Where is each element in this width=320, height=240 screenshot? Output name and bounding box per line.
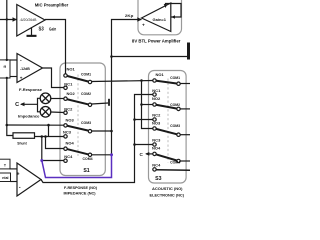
node dot B top: [140, 79, 143, 82]
S3 NO3 contact: [153, 127, 156, 130]
node dot bus y56: [110, 55, 113, 58]
op-amp U3 bottom comparator triangle: [17, 163, 41, 196]
arrow to node C (right): [146, 153, 153, 155]
S1 COM2 contact: [88, 103, 91, 106]
svg-text:S3: S3: [155, 176, 161, 182]
svg-text:IMPEDANCE (NC): IMPEDANCE (NC): [64, 190, 97, 195]
S1 gang dashed linkage: [77, 75, 79, 157]
S3 group1: blade NO1-COM1: [155, 81, 179, 84]
wire shunt right to NC3: [35, 136, 64, 138]
wire bus2 to NO3: [7, 124, 64, 126]
wire COM1(S3) out right: [180, 83, 190, 85]
svg-text:NO1: NO1: [67, 67, 76, 72]
mic input wire: [0, 19, 17, 21]
branch to NO4: [46, 137, 64, 149]
svg-text:ACOUSTIC (NO): ACOUSTIC (NO): [152, 186, 183, 191]
svg-text:NC3: NC3: [152, 137, 161, 142]
wire COM4 to bus: [92, 154, 112, 156]
svg-text:NC2: NC2: [64, 106, 73, 111]
branch to NC4 wire: [41, 137, 43, 161]
S1 NC2 contact: [64, 111, 67, 114]
S1 COM1 contact: [88, 80, 91, 83]
wire box to U2 noninverting input: [10, 76, 17, 78]
svg-text:+: +: [17, 172, 20, 178]
svg-text:NO3: NO3: [152, 120, 161, 125]
svg-text:NC4: NC4: [64, 154, 73, 159]
svg-text:NO1: NO1: [156, 72, 165, 77]
mic input arrowhead: [13, 17, 18, 21]
wire B to NO2(S3): [142, 104, 153, 106]
svg-text:COM2: COM2: [81, 91, 92, 96]
purple node dot left: [40, 159, 43, 162]
svg-text:2Kp: 2Kp: [125, 14, 134, 18]
S3 NO2 contact: [153, 103, 156, 106]
amp right-side wire and loop: [166, 4, 182, 18]
node dot 41.3: [41, 135, 44, 138]
svg-text:NC2: NC2: [152, 112, 161, 117]
svg-text:NC1: NC1: [64, 82, 73, 87]
left cut label box (bottom, input T): [0, 159, 10, 169]
svg-text:NO4: NO4: [66, 140, 75, 145]
power amplifier triangle (points left): [142, 3, 171, 32]
S3 COM3 contact: [177, 133, 180, 136]
left cut label box (bottom, ntal): [0, 173, 11, 182]
S1 NO4 contact: [64, 147, 67, 150]
svg-text:NO2: NO2: [152, 96, 161, 101]
S3 group2: blade NO2-COM2: [155, 105, 179, 109]
wire to NC4: [42, 160, 64, 162]
wire circleX1 to NO2: [51, 98, 64, 100]
node dot A NC2: [133, 118, 136, 121]
ground under U1: [31, 28, 33, 35]
wire U2 output to NC1: [43, 68, 64, 88]
arrow to node C (left): [21, 103, 38, 105]
S1 group2: blade NO2-COM2: [66, 99, 91, 105]
wire NC4(S3) out right: [156, 169, 190, 172]
svg-text:Gain: Gain: [49, 27, 57, 32]
node dot 45: [44, 135, 47, 138]
wire box to U2 inverting input: [10, 59, 17, 61]
svg-text:F-RESPONSE (NO): F-RESPONSE (NO): [64, 185, 98, 190]
node dot bus2/mic wire: [6, 18, 8, 20]
switch block S3 outline: [149, 71, 187, 184]
S3 NC2 contact: [153, 118, 156, 121]
svg-text:-6/20/26dB: -6/20/26dB: [20, 18, 37, 22]
S3 NC4 contact: [153, 168, 156, 171]
S1 NC1 contact: [64, 86, 67, 89]
svg-text:NO2: NO2: [67, 91, 76, 96]
S3 COM4 contact: [177, 159, 180, 162]
svg-text:NO4: NO4: [152, 146, 161, 151]
wire U1 output to NO1: [45, 20, 66, 74]
wire COM3 to bus: [92, 130, 112, 132]
wire COM4(S3) out right: [180, 160, 190, 162]
op-amp U1 MIC preamplifier triangle: [17, 5, 45, 37]
node dot bus2 y125.5: [6, 124, 9, 127]
S3 vertical feed bus B (NO bus): [142, 81, 153, 129]
node dot bus COM3: [110, 130, 113, 133]
svg-text:COM1: COM1: [170, 75, 181, 80]
svg-text:Shunt: Shunt: [17, 142, 27, 146]
svg-text:COM1: COM1: [81, 72, 92, 77]
bracket joining circle-X left terminals: [38, 98, 41, 112]
S1 COM3 contact: [88, 130, 91, 133]
svg-text:F-Response: F-Response: [19, 87, 43, 92]
wire bus to output bar: [112, 56, 188, 58]
S1 NO1 contact: [64, 74, 67, 77]
wire COM2 to capacitor stub: [92, 103, 108, 104]
svg-text:NC4: NC4: [152, 162, 161, 167]
S3 NC1 contact: [153, 93, 156, 96]
svg-text:+: +: [142, 23, 145, 28]
node dot at 48,125.5: [47, 124, 50, 127]
left vertical bus (lower segment): [7, 78, 13, 136]
branch down to shunt wire: [48, 125, 50, 136]
svg-text:S3: S3: [39, 27, 44, 33]
S3 group4: blade NO4-COM4: [155, 154, 179, 161]
input arrowhead at amp apex: [137, 17, 142, 21]
svg-text:ELECTRONIC (NC): ELECTRONIC (NC): [150, 193, 185, 198]
svg-text:Impedance: Impedance: [18, 113, 40, 118]
svg-text:COM4: COM4: [83, 156, 94, 161]
svg-text:ntal: ntal: [2, 176, 8, 180]
S3 COM1 contact: [177, 82, 180, 85]
S1 group1: blade NO1-COM1: [66, 76, 91, 83]
S1 group3: blade NO3-COM3: [66, 125, 91, 131]
svg-text:NC3: NC3: [63, 130, 72, 135]
wire U3 output to S3 NC bus: [41, 145, 135, 183]
capacitor plate bar: [108, 99, 110, 106]
S1 group4: blade NO4-COM4: [66, 149, 91, 155]
wire COM2(S3) out right: [180, 108, 190, 110]
S1 NC4 contact: [64, 159, 67, 162]
S3 COM2 contact: [177, 107, 180, 110]
svg-text:+: +: [20, 75, 23, 80]
S3 NC3 contact: [153, 143, 156, 146]
wire COM1(S1) to NO1(S3): [92, 81, 153, 82]
S1 NO3 contact: [64, 124, 67, 127]
svg-text:Gain=1: Gain=1: [153, 17, 167, 22]
S3 NO4 contact: [153, 152, 156, 155]
wire box1 to U3: [10, 168, 18, 170]
svg-text:NO3: NO3: [66, 118, 75, 123]
wire COM3(S3) out right: [180, 134, 190, 136]
svg-text:-: -: [19, 185, 21, 191]
svg-text:COM2: COM2: [170, 102, 181, 107]
S3 gang dashed linkage: [167, 79, 169, 163]
S3 group3: blade NO3-COM3: [155, 129, 179, 135]
left cut label box (mid, -12dB inputs): [0, 60, 10, 78]
svg-text:COM4: COM4: [170, 160, 181, 165]
svg-text:COM3: COM3: [170, 123, 181, 128]
S3 NO1 contact: [153, 79, 156, 82]
purple node dot right: [110, 153, 113, 156]
svg-text:NC1: NC1: [152, 88, 161, 93]
svg-text:8V BTL Power Amplifier: 8V BTL Power Amplifier: [132, 38, 181, 43]
wire A to NC3(S3): [135, 144, 153, 146]
node dots on box edges: [6, 59, 8, 61]
arrowhead into hypotenuse: [164, 4, 168, 8]
purple highlighted net: [42, 155, 112, 178]
power amplifier block outline: [138, 0, 182, 35]
arrowhead into right edge: [171, 15, 175, 18]
resistor Shunt: [13, 133, 35, 139]
node dot A NC3: [133, 143, 136, 146]
wire box2 to U3: [10, 181, 17, 183]
svg-text:MIC Preamplifier: MIC Preamplifier: [35, 3, 69, 8]
output terminal bar (cropped): [187, 43, 191, 60]
S1 COM4 contact: [88, 153, 91, 156]
svg-text:S1: S1: [83, 168, 89, 174]
wire A to NC2(S3): [135, 119, 153, 121]
wire circleX2 to NC2: [51, 111, 64, 114]
svg-text:COM3: COM3: [81, 120, 92, 125]
S3 vertical feed bus A (NC bus): [135, 95, 153, 145]
svg-text:-12dB: -12dB: [20, 67, 30, 71]
left vertical bus (upper segment): [6, 0, 8, 60]
S1 NO2 contact: [64, 97, 67, 100]
main bus: 2Kp wire to power amp: [112, 20, 142, 155]
transducer circle-X Impedance: [40, 107, 51, 118]
svg-text:C: C: [15, 102, 19, 108]
transducer circle-X F-response: [40, 93, 51, 104]
op-amp U2 -12dB attenuator triangle: [17, 54, 43, 83]
switch block S1 outline: [60, 63, 105, 176]
S1 NC3 contact: [64, 135, 67, 138]
node dot B NO2: [140, 103, 143, 106]
